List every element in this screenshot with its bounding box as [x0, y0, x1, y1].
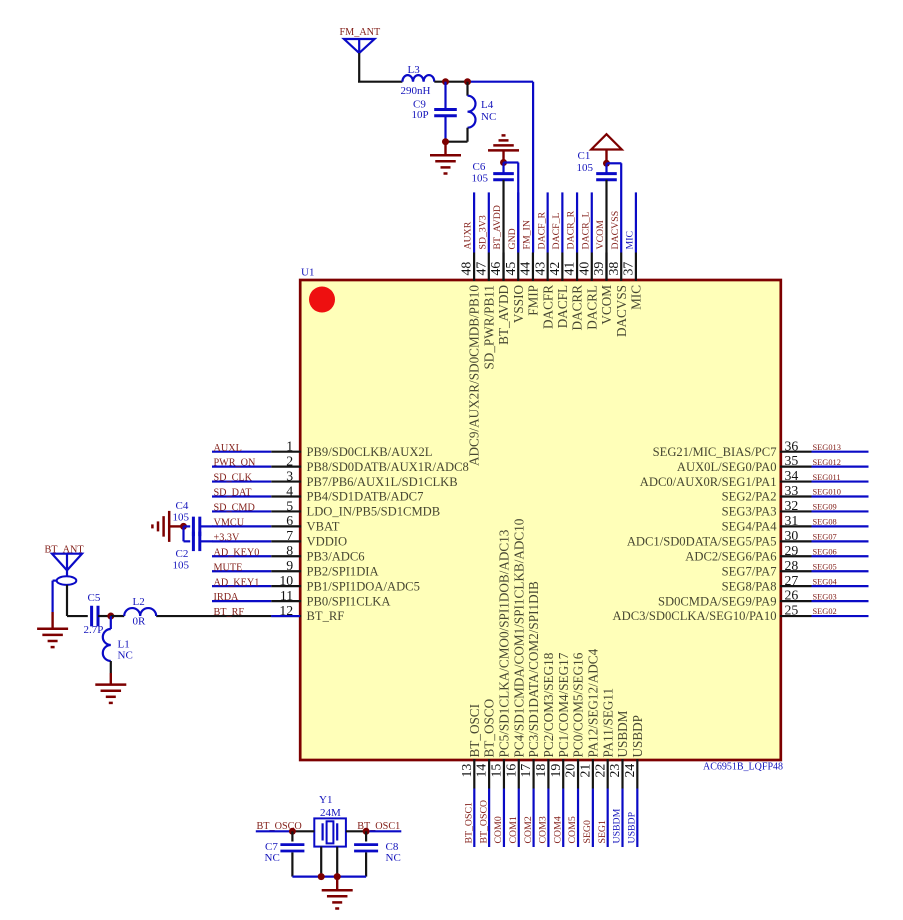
- svg-text:1: 1: [286, 439, 293, 454]
- svg-text:12: 12: [279, 603, 293, 618]
- svg-text:2: 2: [286, 453, 293, 468]
- svg-text:ADC3/SD0CLKA/SEG10/PA10: ADC3/SD0CLKA/SEG10/PA10: [613, 609, 777, 623]
- svg-text:26: 26: [785, 588, 799, 603]
- svg-text:VBAT: VBAT: [307, 520, 340, 534]
- svg-text:SEG011: SEG011: [813, 473, 841, 482]
- svg-text:VDDIO: VDDIO: [307, 535, 348, 549]
- svg-text:PC4/SD1CMDA/COM1/SPI1CLKB/ADC1: PC4/SD1CMDA/COM1/SPI1CLKB/ADC10: [511, 518, 526, 757]
- svg-text:C4: C4: [176, 500, 189, 512]
- svg-text:AUXL: AUXL: [214, 443, 242, 454]
- svg-text:SEG1: SEG1: [597, 820, 608, 844]
- svg-text:COM1: COM1: [508, 816, 519, 843]
- svg-text:SD_PWR/PB11: SD_PWR/PB11: [481, 285, 496, 370]
- svg-text:23: 23: [607, 764, 622, 778]
- svg-text:33: 33: [785, 483, 799, 498]
- svg-text:L2: L2: [133, 596, 145, 608]
- svg-text:PC3/SD1DATA/COM2/SPI1DIB: PC3/SD1DATA/COM2/SPI1DIB: [526, 581, 541, 757]
- svg-text:27: 27: [785, 573, 799, 588]
- svg-text:28: 28: [785, 558, 799, 573]
- svg-text:DACF_R: DACF_R: [536, 211, 547, 249]
- svg-text:SD0CMDA/SEG9/PA9: SD0CMDA/SEG9/PA9: [658, 594, 777, 608]
- svg-text:BT_OSC1: BT_OSC1: [464, 802, 475, 843]
- svg-text:SD_3V3: SD_3V3: [477, 215, 488, 249]
- svg-text:C1: C1: [578, 150, 591, 162]
- svg-text:SEG07: SEG07: [813, 533, 837, 542]
- svg-text:41: 41: [562, 262, 577, 276]
- svg-text:BT_OSCO: BT_OSCO: [482, 699, 497, 758]
- svg-text:SEG2/PA2: SEG2/PA2: [722, 490, 777, 504]
- svg-text:7: 7: [286, 528, 293, 543]
- svg-text:22: 22: [592, 764, 607, 778]
- svg-text:BT_OSCI: BT_OSCI: [467, 704, 482, 758]
- svg-text:NC: NC: [118, 650, 133, 662]
- svg-text:40: 40: [576, 262, 591, 276]
- svg-text:44: 44: [518, 262, 533, 276]
- svg-text:10P: 10P: [412, 109, 429, 121]
- svg-text:PA12/SEG12/ADC4: PA12/SEG12/ADC4: [585, 648, 600, 757]
- svg-text:17: 17: [518, 764, 533, 778]
- svg-text:GND: GND: [507, 228, 518, 249]
- svg-text:COM0: COM0: [493, 816, 504, 843]
- svg-text:PB7/PB6/AUX1L/SD1CLKB: PB7/PB6/AUX1L/SD1CLKB: [307, 475, 458, 489]
- svg-text:10: 10: [279, 573, 293, 588]
- svg-text:USBDM: USBDM: [612, 808, 623, 843]
- svg-text:13: 13: [459, 764, 474, 778]
- svg-text:46: 46: [488, 262, 503, 276]
- svg-text:4: 4: [286, 483, 293, 498]
- svg-text:SEG3/PA3: SEG3/PA3: [722, 505, 777, 519]
- svg-text:PC5/SD1CLKA/CMO0/SPI1DOB/ADC13: PC5/SD1CLKA/CMO0/SPI1DOB/ADC13: [497, 529, 512, 757]
- svg-text:105: 105: [173, 512, 190, 524]
- svg-text:DACRR: DACRR: [570, 285, 585, 331]
- svg-text:C5: C5: [88, 592, 101, 604]
- svg-text:25: 25: [785, 603, 799, 618]
- svg-text:42: 42: [547, 262, 562, 276]
- svg-text:11: 11: [280, 588, 293, 603]
- svg-text:PWR_ON: PWR_ON: [214, 458, 257, 469]
- svg-text:Y1: Y1: [319, 794, 332, 806]
- svg-text:45: 45: [503, 262, 518, 276]
- svg-text:PC2/COM3/SEG18: PC2/COM3/SEG18: [541, 652, 556, 757]
- svg-text:SEG21/MIC_BIAS/PC7: SEG21/MIC_BIAS/PC7: [653, 445, 777, 459]
- svg-text:PB8/SD0DATB/AUX1R/ADC8: PB8/SD0DATB/AUX1R/ADC8: [307, 460, 469, 474]
- svg-text:20: 20: [563, 764, 578, 778]
- svg-text:PA11/SEG11: PA11/SEG11: [600, 688, 615, 758]
- svg-text:AD_KEY1: AD_KEY1: [214, 577, 260, 588]
- svg-text:ADC9/AUX2R/SD0CMDB/PB10: ADC9/AUX2R/SD0CMDB/PB10: [467, 285, 482, 466]
- svg-text:SEG013: SEG013: [813, 443, 841, 452]
- svg-text:6: 6: [286, 513, 293, 528]
- svg-text:AUX0L/SEG0/PA0: AUX0L/SEG0/PA0: [677, 460, 777, 474]
- svg-text:COM4: COM4: [552, 816, 563, 843]
- svg-text:SEG0: SEG0: [582, 820, 593, 844]
- svg-text:30: 30: [785, 528, 799, 543]
- svg-text:IRDA: IRDA: [214, 592, 240, 603]
- svg-text:3: 3: [286, 468, 293, 483]
- svg-text:PC1/COM4/SEG17: PC1/COM4/SEG17: [556, 652, 571, 757]
- svg-text:9: 9: [286, 558, 293, 573]
- svg-text:ADC1/SD0DATA/SEG5/PA5: ADC1/SD0DATA/SEG5/PA5: [627, 535, 777, 549]
- svg-text:0R: 0R: [133, 616, 147, 628]
- svg-text:FMIP: FMIP: [526, 285, 541, 316]
- svg-text:PB2/SPI1DIA: PB2/SPI1DIA: [307, 564, 379, 578]
- svg-text:AC6951B_LQFP48: AC6951B_LQFP48: [703, 762, 783, 773]
- svg-text:DACFR: DACFR: [540, 285, 555, 329]
- svg-text:BT_OSCO: BT_OSCO: [478, 800, 489, 844]
- svg-text:105: 105: [577, 162, 594, 174]
- svg-text:31: 31: [785, 513, 799, 528]
- svg-text:MIC: MIC: [625, 231, 636, 250]
- svg-text:COM3: COM3: [538, 816, 549, 843]
- svg-text:L3: L3: [408, 64, 421, 76]
- svg-text:FM_IN: FM_IN: [522, 220, 533, 249]
- svg-text:21: 21: [577, 764, 592, 778]
- svg-text:PB9/SD0CLKB/AUX2L: PB9/SD0CLKB/AUX2L: [307, 445, 433, 459]
- svg-text:DACRL: DACRL: [584, 285, 599, 330]
- svg-text:USBDP: USBDP: [627, 811, 638, 843]
- svg-text:VMCU: VMCU: [214, 518, 245, 529]
- svg-text:5: 5: [286, 498, 293, 513]
- svg-text:BT_RF: BT_RF: [307, 609, 345, 623]
- svg-text:MUTE: MUTE: [214, 562, 243, 573]
- svg-text:NC: NC: [386, 852, 401, 864]
- svg-text:DACFL: DACFL: [555, 285, 570, 328]
- svg-text:VCOM: VCOM: [595, 220, 606, 250]
- svg-text:290nH: 290nH: [401, 85, 431, 97]
- svg-text:SEG012: SEG012: [813, 458, 841, 467]
- svg-text:2.7P: 2.7P: [84, 624, 104, 636]
- svg-text:DACR_R: DACR_R: [566, 210, 577, 249]
- svg-text:43: 43: [532, 262, 547, 276]
- svg-text:SEG03: SEG03: [813, 592, 837, 601]
- svg-text:16: 16: [503, 764, 518, 778]
- svg-text:DACVSS: DACVSS: [610, 211, 621, 250]
- svg-text:VCOM: VCOM: [599, 285, 614, 325]
- svg-text:BT_AVDD: BT_AVDD: [496, 285, 511, 345]
- svg-text:ADC2/SEG6/PA6: ADC2/SEG6/PA6: [685, 549, 776, 563]
- svg-text:DACF_L: DACF_L: [551, 212, 562, 249]
- svg-text:BT_AVDD: BT_AVDD: [492, 205, 503, 249]
- svg-text:36: 36: [785, 438, 799, 453]
- svg-text:PB1/SPI1DOA/ADC5: PB1/SPI1DOA/ADC5: [307, 579, 420, 593]
- svg-text:COM5: COM5: [567, 816, 578, 843]
- svg-text:37: 37: [621, 262, 636, 276]
- svg-text:C2: C2: [176, 548, 189, 560]
- svg-text:AUXR: AUXR: [463, 221, 474, 249]
- svg-text:USBDM: USBDM: [615, 710, 630, 757]
- svg-text:PB3/ADC6: PB3/ADC6: [307, 549, 365, 563]
- svg-text:47: 47: [473, 262, 488, 276]
- svg-text:105: 105: [173, 560, 190, 572]
- svg-text:19: 19: [548, 764, 563, 778]
- svg-text:SEG09: SEG09: [813, 503, 837, 512]
- svg-text:105: 105: [472, 173, 489, 185]
- svg-text:8: 8: [286, 543, 293, 558]
- svg-text:PC0/COM5/SEG16: PC0/COM5/SEG16: [571, 652, 586, 757]
- svg-text:SEG4/PA4: SEG4/PA4: [722, 520, 778, 534]
- svg-text:34: 34: [785, 468, 799, 483]
- svg-text:NC: NC: [481, 111, 496, 123]
- svg-text:29: 29: [785, 543, 799, 558]
- svg-text:SEG010: SEG010: [813, 488, 841, 497]
- svg-text:39: 39: [591, 262, 606, 276]
- svg-text:+3.3V: +3.3V: [214, 532, 240, 543]
- svg-text:SEG02: SEG02: [813, 607, 837, 616]
- svg-text:VSSIO: VSSIO: [511, 285, 526, 323]
- svg-text:L4: L4: [481, 99, 494, 111]
- svg-text:BT_RF: BT_RF: [214, 607, 245, 618]
- svg-text:PB0/SPI1CLKA: PB0/SPI1CLKA: [307, 594, 391, 608]
- svg-text:24M: 24M: [320, 807, 341, 819]
- svg-text:DACR_L: DACR_L: [580, 211, 591, 249]
- svg-text:C6: C6: [473, 161, 486, 173]
- svg-text:AD_KEY0: AD_KEY0: [214, 547, 260, 558]
- svg-text:COM2: COM2: [523, 816, 534, 843]
- svg-text:SD_CLK: SD_CLK: [214, 473, 253, 484]
- svg-text:USBDP: USBDP: [630, 715, 645, 758]
- svg-text:38: 38: [606, 262, 621, 276]
- svg-text:18: 18: [533, 764, 548, 778]
- svg-text:15: 15: [489, 764, 504, 778]
- svg-text:PB4/SD1DATB/ADC7: PB4/SD1DATB/ADC7: [307, 490, 424, 504]
- svg-text:SEG06: SEG06: [813, 547, 837, 556]
- svg-text:DACVSS: DACVSS: [614, 285, 629, 337]
- svg-text:NC: NC: [265, 852, 280, 864]
- svg-text:U1: U1: [301, 267, 314, 279]
- svg-text:SEG8/PA8: SEG8/PA8: [722, 579, 777, 593]
- svg-text:SD_DAT: SD_DAT: [214, 488, 253, 499]
- svg-text:LDO_IN/PB5/SD1CMDB: LDO_IN/PB5/SD1CMDB: [307, 505, 441, 519]
- svg-text:SEG04: SEG04: [813, 577, 838, 586]
- svg-text:MIC: MIC: [629, 285, 644, 310]
- svg-text:14: 14: [474, 764, 489, 778]
- svg-text:32: 32: [785, 498, 799, 513]
- svg-text:SEG05: SEG05: [813, 562, 837, 571]
- svg-text:SEG08: SEG08: [813, 518, 837, 527]
- svg-text:24: 24: [622, 764, 637, 778]
- svg-text:48: 48: [459, 262, 474, 276]
- svg-text:35: 35: [785, 453, 799, 468]
- svg-text:ADC0/AUX0R/SEG1/PA1: ADC0/AUX0R/SEG1/PA1: [640, 475, 777, 489]
- svg-text:SD_CMD: SD_CMD: [214, 503, 255, 514]
- svg-text:FM_ANT: FM_ANT: [340, 27, 382, 38]
- svg-text:SEG7/PA7: SEG7/PA7: [722, 564, 777, 578]
